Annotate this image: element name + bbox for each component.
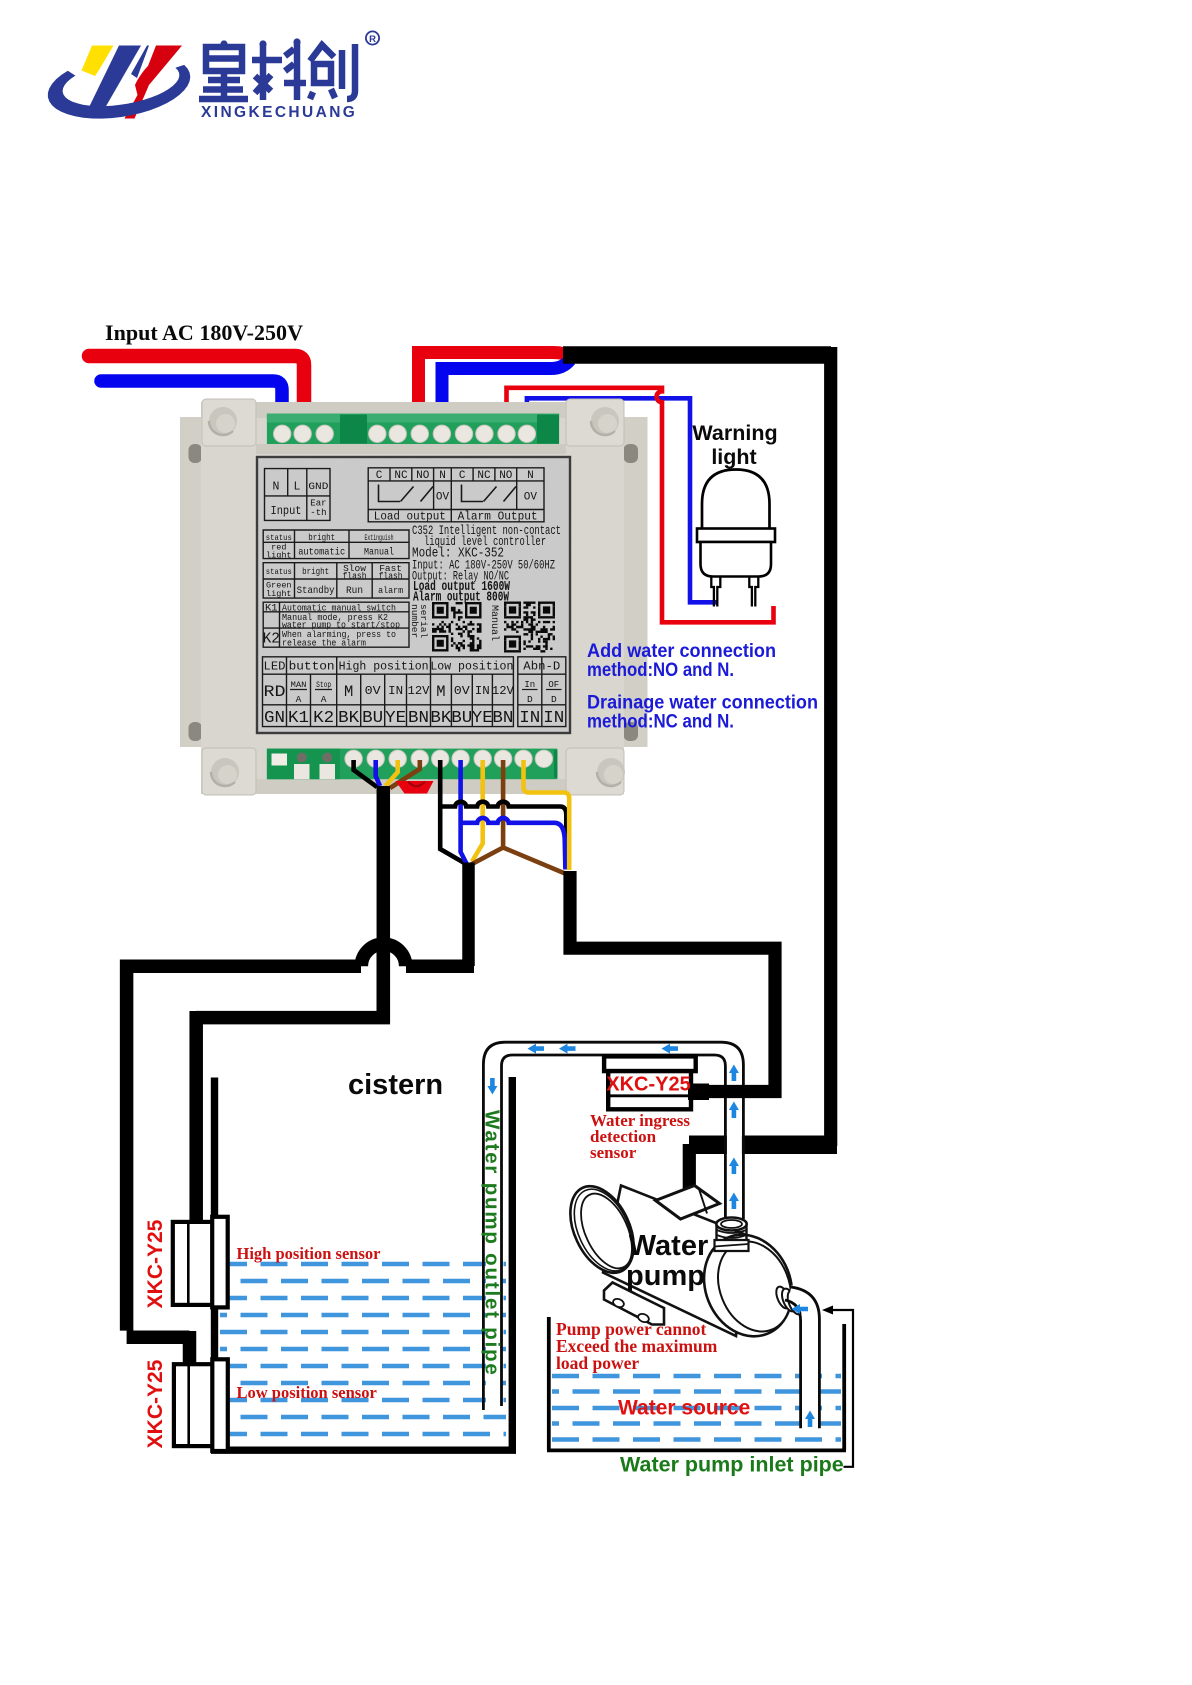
svg-text:LED: LED bbox=[264, 660, 286, 674]
svg-text:status: status bbox=[266, 533, 292, 543]
svg-text:Standby: Standby bbox=[297, 585, 335, 597]
svg-text:12V: 12V bbox=[408, 684, 431, 698]
svg-text:Run: Run bbox=[346, 586, 363, 597]
svg-text:BU: BU bbox=[451, 708, 472, 727]
svg-text:method:NO and N.: method:NO and N. bbox=[587, 660, 734, 681]
svg-text:IN: IN bbox=[519, 708, 540, 727]
svg-text:cistern: cistern bbox=[348, 1069, 443, 1101]
svg-text:K2: K2 bbox=[313, 708, 334, 727]
svg-text:Water pump outlet pipe: Water pump outlet pipe bbox=[481, 1110, 504, 1377]
svg-text:C: C bbox=[459, 470, 466, 482]
svg-text:0V: 0V bbox=[365, 684, 382, 698]
svg-text:A: A bbox=[296, 694, 302, 705]
svg-text:XKC-Y25: XKC-Y25 bbox=[144, 1219, 167, 1308]
svg-text:IN: IN bbox=[388, 684, 403, 698]
svg-text:OV: OV bbox=[524, 492, 538, 504]
svg-text:Abn-D: Abn-D bbox=[523, 661, 560, 674]
svg-text:GN: GN bbox=[264, 708, 285, 727]
svg-text:button: button bbox=[289, 660, 335, 674]
svg-text:Warning: Warning bbox=[692, 421, 777, 445]
svg-text:NC: NC bbox=[477, 470, 491, 482]
svg-text:K1: K1 bbox=[265, 603, 278, 615]
svg-text:IN: IN bbox=[543, 708, 564, 727]
svg-text:BK: BK bbox=[338, 708, 359, 727]
svg-text:Low position sensor: Low position sensor bbox=[237, 1383, 377, 1402]
svg-text:Add water connection: Add water connection bbox=[587, 641, 776, 662]
svg-text:N: N bbox=[273, 481, 280, 494]
svg-text:Load output: Load output bbox=[374, 510, 446, 524]
svg-text:YE: YE bbox=[385, 708, 406, 727]
svg-text:High position: High position bbox=[339, 661, 429, 674]
svg-text:number: number bbox=[409, 604, 420, 638]
svg-text:flash: flash bbox=[379, 571, 403, 582]
svg-text:XKC-Y25: XKC-Y25 bbox=[144, 1359, 167, 1448]
svg-text:-th: -th bbox=[310, 508, 326, 518]
svg-text:Automatic manual switch: Automatic manual switch bbox=[282, 604, 396, 614]
svg-text:Input: Input bbox=[271, 504, 302, 518]
svg-text:method:NC and N.: method:NC and N. bbox=[587, 712, 734, 733]
svg-text:IN: IN bbox=[475, 684, 490, 698]
svg-text:C: C bbox=[376, 470, 383, 482]
svg-text:bright: bright bbox=[302, 566, 329, 577]
svg-text:In: In bbox=[524, 680, 535, 690]
svg-text:water pump to start/stop: water pump to start/stop bbox=[282, 621, 400, 631]
svg-text:YE: YE bbox=[472, 708, 493, 727]
svg-text:MAN: MAN bbox=[291, 681, 307, 690]
svg-text:L: L bbox=[294, 481, 301, 494]
svg-text:NC: NC bbox=[394, 470, 408, 482]
svg-text:Manual: Manual bbox=[488, 605, 500, 641]
svg-text:XINGKECHUANG: XINGKECHUANG bbox=[201, 104, 357, 121]
svg-text:light: light bbox=[266, 551, 292, 561]
svg-text:N: N bbox=[527, 470, 534, 482]
svg-text:OV: OV bbox=[436, 492, 450, 504]
svg-text:sensor: sensor bbox=[590, 1143, 637, 1162]
svg-text:12V: 12V bbox=[492, 684, 515, 698]
svg-text:High position sensor: High position sensor bbox=[237, 1244, 381, 1263]
svg-text:R: R bbox=[369, 34, 376, 45]
svg-text:N: N bbox=[439, 470, 446, 482]
svg-text:Water pump inlet pipe: Water pump inlet pipe bbox=[620, 1453, 844, 1477]
svg-text:Water: Water bbox=[629, 1230, 709, 1262]
svg-text:BU: BU bbox=[362, 708, 383, 727]
svg-text:BK: BK bbox=[430, 708, 451, 727]
svg-text:Manual: Manual bbox=[364, 547, 394, 559]
svg-text:0V: 0V bbox=[454, 684, 471, 698]
svg-text:Water source: Water source bbox=[618, 1397, 750, 1420]
svg-text:K1: K1 bbox=[288, 708, 309, 727]
svg-text:light: light bbox=[711, 445, 756, 469]
svg-text:Extinguish: Extinguish bbox=[365, 533, 394, 543]
svg-text:flash: flash bbox=[343, 571, 367, 582]
svg-text:Input AC 180V-250V: Input AC 180V-250V bbox=[105, 320, 303, 345]
svg-text:K2: K2 bbox=[263, 632, 280, 648]
svg-text:M: M bbox=[344, 683, 353, 701]
svg-text:BN: BN bbox=[408, 708, 429, 727]
svg-text:D: D bbox=[527, 694, 533, 705]
svg-text:alarm: alarm bbox=[378, 585, 403, 596]
svg-text:NO: NO bbox=[416, 470, 430, 482]
svg-text:light: light bbox=[266, 589, 292, 599]
svg-text:Low position: Low position bbox=[430, 661, 513, 674]
svg-text:M: M bbox=[436, 683, 445, 701]
svg-text:RD: RD bbox=[264, 683, 286, 701]
svg-text:BN: BN bbox=[492, 708, 513, 727]
svg-text:D: D bbox=[551, 694, 557, 705]
svg-text:Ear: Ear bbox=[310, 499, 326, 509]
svg-text:XKC-Y25: XKC-Y25 bbox=[606, 1074, 690, 1096]
svg-text:OF: OF bbox=[548, 680, 559, 690]
svg-text:A: A bbox=[321, 694, 327, 705]
svg-text:GND: GND bbox=[308, 481, 328, 493]
svg-text:Alarm Output: Alarm Output bbox=[458, 510, 538, 524]
svg-text:status: status bbox=[266, 567, 292, 577]
svg-text:bright: bright bbox=[308, 532, 335, 543]
svg-text:load power: load power bbox=[556, 1353, 639, 1373]
svg-text:pump: pump bbox=[626, 1260, 705, 1292]
svg-text:NO: NO bbox=[499, 470, 513, 482]
svg-text:automatic: automatic bbox=[298, 547, 345, 559]
svg-text:Stop: Stop bbox=[316, 681, 331, 690]
svg-text:release the alarm: release the alarm bbox=[282, 639, 366, 649]
svg-text:Drainage water connection: Drainage water connection bbox=[587, 693, 818, 714]
